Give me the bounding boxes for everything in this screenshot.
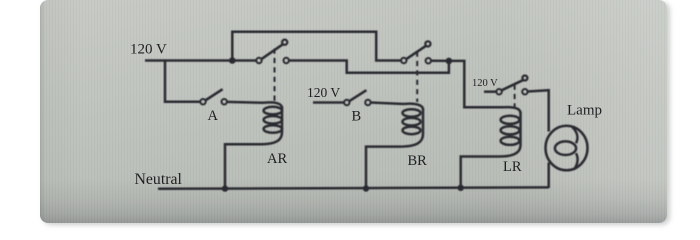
contact BR left terminal xyxy=(401,58,406,63)
junction node at 120V feed xyxy=(229,57,236,64)
contact BR right terminal xyxy=(426,58,431,63)
contact AR upper terminal xyxy=(282,40,287,45)
wire switch A to coil AR xyxy=(227,101,263,104)
switch B left terminal xyxy=(344,100,349,105)
contact LR blade xyxy=(501,80,523,90)
dashed link AR contact xyxy=(274,49,276,104)
switch A right terminal xyxy=(222,99,227,104)
lamp filament loop xyxy=(555,141,576,155)
junction node right xyxy=(446,58,453,65)
switch B blade xyxy=(349,90,366,101)
coil LR xyxy=(500,107,521,156)
junction node BR on neutral xyxy=(363,185,369,191)
wire coil BR to neutral xyxy=(366,147,400,189)
wire 120V main line left xyxy=(145,59,256,62)
wire from contact BR through junction to LR coil branch xyxy=(431,61,504,108)
contact BR blade xyxy=(406,46,426,60)
wire 120V switch LR line xyxy=(484,90,496,93)
contact LR upper terminal xyxy=(522,76,527,81)
lamp envelope xyxy=(546,126,588,171)
coil AR xyxy=(262,102,282,144)
svg-text:120 V: 120 V xyxy=(130,42,167,58)
contact LR right terminal xyxy=(522,89,527,94)
dashed link BR contact xyxy=(416,52,418,103)
wire top rail from junction over contact AR to contact BR xyxy=(232,32,401,61)
svg-text:Lamp: Lamp xyxy=(567,103,602,119)
svg-text:AR: AR xyxy=(267,151,287,167)
svg-text:LR: LR xyxy=(503,159,522,175)
svg-text:B: B xyxy=(352,109,362,125)
contact AR left terminal xyxy=(256,58,261,63)
lamp filament lead upper xyxy=(572,127,578,144)
switch A left terminal xyxy=(200,99,205,104)
svg-text:BR: BR xyxy=(408,153,428,169)
wire lamp to neutral xyxy=(547,163,550,189)
svg-text:Neutral: Neutral xyxy=(135,171,183,188)
junction node AR on neutral xyxy=(222,185,228,191)
wire coil LR to neutral xyxy=(461,157,500,188)
dashed link LR contact xyxy=(514,85,516,108)
svg-text:120 V: 120 V xyxy=(307,85,340,100)
switch A blade xyxy=(205,89,222,100)
neutral rail xyxy=(158,187,549,188)
svg-text:A: A xyxy=(208,108,219,124)
wire coil AR to neutral xyxy=(225,144,262,188)
contact AR blade xyxy=(261,44,283,59)
contact BR upper terminal xyxy=(425,41,430,46)
switch B right terminal xyxy=(365,100,370,105)
lamp filament lead lower xyxy=(574,153,578,169)
wire 120V switch B line xyxy=(313,101,344,104)
contact LR left terminal xyxy=(496,89,501,94)
svg-text:120 V: 120 V xyxy=(472,78,498,89)
wire contact LR to lamp xyxy=(528,90,549,131)
wire switch A branch from 120V line xyxy=(165,61,200,102)
coil BR xyxy=(400,104,423,147)
contact AR right terminal xyxy=(284,58,289,63)
junction node LR on neutral xyxy=(458,185,464,191)
wire from contact AR to junction node xyxy=(289,61,449,73)
wire switch B to coil BR xyxy=(371,103,404,105)
